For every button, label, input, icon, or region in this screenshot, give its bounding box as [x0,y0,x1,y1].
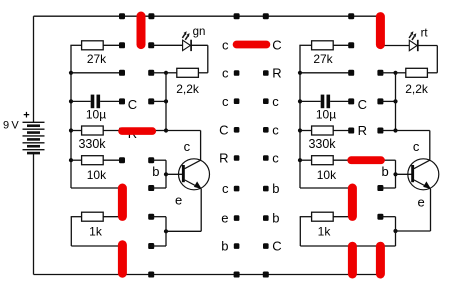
pad center row3 right [263,98,269,104]
svg-text:27k: 27k [313,52,333,66]
pad top bus left-a [119,13,125,19]
transistor Q2 circle [408,159,439,190]
svg-text:gn: gn [193,26,206,38]
pad row8 left-a [119,243,125,249]
transistor Q1 collector stroke [185,160,201,169]
wire base junction to Q2 base [396,173,413,175]
wire R5 to jumper pad row7 [103,216,122,218]
pad center row8 left [234,243,240,249]
pad row5 right-a [348,157,354,163]
transistor Q1 emitter stroke [185,180,202,189]
wire node B to R7 2.2k [396,72,406,74]
wire emitter bracket vertical right [395,217,397,246]
svg-text:C: C [219,122,228,137]
pad row4 right-a [348,128,354,134]
svg-text:b: b [272,211,279,226]
pad row3 left-b [148,98,154,104]
pad top bus right-a [348,13,354,19]
node collector junction row4 [164,128,168,132]
battery BAT1 positive lead wire [33,16,35,122]
pad row7 left-a [119,214,125,220]
node rail-row2 junction [69,71,73,75]
jumper red horizontal row5 right [351,156,381,164]
jumper red vertical top-right bus to row1 [376,17,385,45]
wire emitter Q2 down [430,189,432,231]
wire jumper to LED2 anode [384,45,409,47]
wire 1k bracket vertical right [299,217,301,246]
wire left vertical rail [70,45,72,188]
pad center row2 left [234,70,240,76]
wire collector net vertical right [395,73,397,131]
pad row3 left-a [119,98,125,104]
pad bottom bus left-b [148,272,154,278]
wire row6 rail to jumper [71,187,122,189]
transistor Q2 base bar [411,165,414,182]
node base junction Q2 [393,172,397,176]
node rail-row5 junction [69,158,73,162]
wire node row4 to collector corner [166,130,201,132]
resistor R5 1k body [82,212,104,221]
wire pad to node B [380,72,395,74]
transistor Q2 emitter arrow [423,181,431,189]
wire base junction to Q1 base [166,173,183,175]
svg-text:2,2k: 2,2k [405,82,429,96]
wire pads to node row4 right [380,130,395,132]
resistor R9 10k body [312,156,334,165]
svg-text:1k: 1k [89,225,103,239]
resistor R8 330k body [312,126,334,135]
wire rail to C1 10u [71,100,91,102]
pad center row4 left [234,127,240,133]
jumper red vertical row8-bus left [118,245,127,273]
node collector junction row3 right [393,99,397,103]
svg-text:330k: 330k [78,137,106,151]
resistor R10 1k body [312,212,334,221]
pad row3 right-a [348,98,354,104]
pad top bus center-a [234,13,240,19]
svg-text:b: b [152,164,159,179]
node right rail-row4 junction [298,128,302,132]
wire rail to R8 330k [299,130,311,132]
pad row2 right-b [377,70,383,76]
svg-text:27k: 27k [87,52,107,66]
pad bottom bus center-b [263,272,269,278]
wire R4 to pad [103,159,122,161]
svg-text:10µ: 10µ [86,107,106,121]
svg-text:e: e [221,211,228,226]
wire rail to R9 10k [299,159,311,161]
svg-text:c: c [272,94,279,109]
transistor Q1 base bar [182,165,185,182]
svg-text:rt: rt [421,27,429,39]
wire pad to LED1 anode [151,44,182,46]
wire R1 to pad [103,44,122,46]
jumper red vertical row8-bus right B [348,246,357,274]
wire C2 to pad [330,100,351,102]
pad row4 left-a [119,128,125,134]
wire base bracket vertical right [395,160,397,188]
pad row7 left-b [148,214,154,220]
pad row7 right-b [377,214,383,220]
svg-text:c: c [272,151,279,166]
pad row6 right-b [377,185,383,191]
svg-text:e: e [175,193,182,208]
jumper red vertical rows6-7 right [348,188,357,216]
pad center row3 left [234,98,240,104]
wire pad row5 to base bracket [151,159,166,161]
LED D2 red triangle [409,40,417,50]
svg-text:b: b [221,239,228,254]
pad top bus center-b [263,13,269,19]
pad center row7 right [263,215,269,221]
pad row6 left-b [148,185,154,191]
svg-text:c: c [413,139,420,154]
wire emitter horizontal to junction right [396,230,431,232]
pad row5 right-b [377,157,383,163]
svg-text:b: b [272,181,279,196]
wire C1 to pad [100,100,122,102]
wire rail to R4 10k [70,159,81,161]
wire row8 bracket to jumper right [380,245,395,247]
wire base bracket vertical [165,160,167,188]
wire R9 to pads row5 right [333,159,351,161]
svg-text:c: c [222,94,229,109]
wire right vertical rail [299,45,301,188]
svg-text:R: R [272,66,281,81]
wire LED1 cathode to corner [191,44,208,46]
LED D1 emission arrows [182,34,184,38]
wire R7 to down-wire [427,72,437,74]
pad row3 right-b [377,98,383,104]
node rail-row3 junction [69,99,73,103]
wire collector vertical down right [429,131,431,161]
svg-text:b: b [382,164,389,179]
pad row2 right-a [348,70,354,76]
pad center row2 right [263,70,269,76]
transistor Q2 emitter stroke [414,180,431,189]
jumper red horizontal center row1 [237,41,267,49]
svg-text:C: C [358,97,367,112]
node emitter junction right [393,229,397,233]
svg-text:c: c [222,181,229,196]
svg-text:c: c [184,139,191,154]
svg-text:c: c [272,122,279,137]
jumper red vertical rows6-7 left [118,188,127,216]
wire pad row6 to base bracket [151,187,166,189]
wire emitter bracket vertical [165,217,167,246]
pad row5 left-b [148,157,154,163]
wire rail to pad row2 [71,72,122,74]
pad row4 left-b [148,128,154,134]
wire jumper to base bracket right [380,159,395,161]
node right rail-row2 junction [298,71,302,75]
node base junction Q1 [164,172,168,176]
svg-text:C: C [128,97,137,112]
transistor Q2 collector stroke [414,160,430,169]
node emitter junction [164,229,168,233]
battery BAT1 negative lead wire [33,153,35,274]
wire pad row7 to bracket right [380,216,395,218]
svg-text:c: c [222,38,229,53]
svg-text:1k: 1k [318,225,332,239]
wire row8 to pad [71,245,122,247]
wire R2 to down-wire [198,72,207,74]
pad center row5 right [263,155,269,161]
wire node A to R2 2.2k [166,72,177,74]
wire pads to node row4 [151,130,166,132]
wire R8 to pads row4 right [333,130,351,132]
wire R3 to pads row4 [103,130,122,132]
resistor R3 330k body [82,126,104,135]
wire emitter Q1 down [200,189,202,232]
pad row1 right-a [348,42,354,48]
jumper red vertical row8-bus right C [376,246,385,274]
wire emitter horizontal to junction [166,230,201,232]
wire pad row6 to base bracket right [380,187,395,189]
wire rail to pad row2 right [300,72,351,74]
svg-text:10k: 10k [317,168,337,182]
resistor R4 10k body [82,156,104,165]
resistor R6 27k body [312,41,334,50]
transistor Q1 emitter arrow [194,181,202,189]
wire rail to C2 10u [300,100,321,102]
pad center row6 right [263,186,269,192]
node B collector net junction row2 right [393,71,397,75]
wire LED2 cathode to corner [418,45,438,47]
svg-text:C: C [272,239,281,254]
pad center row7 left [234,215,240,221]
wire R6 to pad [333,44,351,46]
wire pad to node A [151,72,166,74]
pad bottom bus center-a [234,272,240,278]
svg-text:R: R [219,151,228,166]
wire pad row8 to bracket [151,245,166,247]
wire rail to R6 27k [299,44,311,46]
pad center row4 right [263,127,269,133]
wire 0V bottom bus [34,274,381,276]
pad row4 right-b [377,128,383,134]
svg-text:10k: 10k [87,168,107,182]
wire rail to R1 27k [70,44,81,46]
svg-text:+: + [23,110,29,122]
svg-text:e: e [418,195,425,210]
wire row8 to pads right [300,245,380,247]
node A collector net junction row2 [164,71,168,75]
pad center row8 right [263,243,269,249]
pad row1 left-b [148,42,154,48]
resistor R2 2.2k body [177,68,199,77]
pad top bus left-b [148,13,154,19]
wire R10 to jumper pad row7 right [333,216,351,218]
pad row2 left-a [119,70,125,76]
transistor Q1 circle [179,159,210,190]
wire pad row7 to bracket [151,216,166,218]
wire node row4 to collector corner right [396,130,430,132]
node right rail-row3 junction [298,99,302,103]
pad center row6 left [234,186,240,192]
pad row2 left-b [148,70,154,76]
node right rail-row5 junction [298,158,302,162]
node rail-row4 junction [69,128,73,132]
jumper red vertical top-left bus to row1 [137,16,146,45]
wire +9V top bus [34,15,381,17]
wire corner down to R2 2.2k [207,45,209,73]
jumper red horizontal row4 left [122,127,152,135]
LED D1 cathode bar [190,40,192,51]
wire collector vertical down [200,131,202,161]
wire collector net vertical [165,73,167,131]
svg-text:c: c [222,66,229,81]
pad row5 left-a [119,157,125,163]
capacitor C2 10u plates [321,95,325,109]
LED D2 emission arrows [409,34,411,38]
node collector net junction row3 [164,99,168,103]
svg-text:9 V: 9 V [3,120,19,132]
node collector junction row4 right [393,128,397,132]
svg-text:330k: 330k [308,137,336,151]
wire pad to node col row3 right [380,100,395,102]
wire bracket to R5 1k [71,216,82,218]
svg-text:2,2k: 2,2k [176,82,200,96]
resistor R1 27k body [82,41,104,50]
wire bracket to R10 1k [300,216,312,218]
svg-text:10µ: 10µ [316,107,336,121]
svg-text:R: R [358,123,367,138]
resistor R7 2.2k body [406,68,428,77]
capacitor C1 10u plates [91,95,95,109]
wire pad to node col row3 [151,100,166,102]
svg-text:C: C [272,38,281,53]
wire rail to R3 330k [70,130,81,132]
LED D2 cathode bar [417,40,419,51]
pad row1 left-a [119,42,125,48]
LED D1 green triangle [183,40,191,50]
wire 1k bracket vertical [70,217,72,246]
battery BAT1 9V cells [23,121,45,123]
wire right row6 rail to jumper [300,187,351,189]
pad row8 left-b [148,243,154,249]
pad center row5 left [234,155,240,161]
wire corner down to R7 2.2k [436,46,438,73]
